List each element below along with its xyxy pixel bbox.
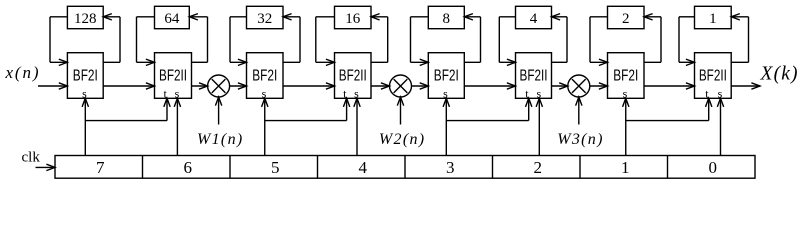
wire feedback up from U8 to M8 <box>731 14 748 63</box>
delay memory box M1 value 128 <box>67 6 103 28</box>
delay memory box M5 value 8 <box>428 6 464 28</box>
delay memory box M8 value 1 <box>695 6 732 28</box>
svg-text:6: 6 <box>184 158 193 177</box>
wire data U1 to U2 <box>103 83 154 89</box>
svg-text:BF2II: BF2II <box>339 68 367 85</box>
wire feedback down from M2 to U2 <box>137 17 155 66</box>
svg-text:BF2II: BF2II <box>699 68 727 85</box>
svg-text:2: 2 <box>622 11 630 27</box>
wire twiddle input to X3 <box>576 97 582 125</box>
multiplier X1 <box>208 75 230 97</box>
multiplier X2 <box>390 75 412 97</box>
wire feedback down from M4 to U4 <box>316 17 335 66</box>
svg-text:4: 4 <box>359 158 368 177</box>
wire data U4 to multiplier X2 <box>371 83 390 89</box>
wire control connector U3 s to U4 t <box>265 98 350 120</box>
svg-text:BF2I: BF2I <box>434 68 459 85</box>
wire feedback up from U7 to M7 <box>644 14 661 63</box>
svg-text:W2(n): W2(n) <box>379 131 424 148</box>
svg-text:BF2I: BF2I <box>73 68 98 85</box>
svg-text:BF2II: BF2II <box>520 68 548 85</box>
svg-text:1: 1 <box>621 158 630 177</box>
wire x(n) input <box>38 83 67 89</box>
svg-text:1: 1 <box>709 11 717 27</box>
wire twiddle input to X2 <box>397 97 403 125</box>
wire data U5 to U6 <box>464 83 515 89</box>
butterfly unit U8 BF2II <box>695 53 732 99</box>
wire clk input <box>36 164 56 170</box>
wire control s of U1 from counter <box>82 98 88 155</box>
wire control s of U6 from counter <box>536 98 542 155</box>
wire twiddle input to X1 <box>215 97 221 125</box>
svg-text:16: 16 <box>345 11 361 27</box>
wire data U2 to multiplier X1 <box>192 83 208 89</box>
counter register block <box>55 156 755 179</box>
butterfly unit U2 BF2II <box>155 53 192 99</box>
butterfly unit U6 BF2II <box>516 53 552 99</box>
wire feedback down from M8 to U8 <box>679 17 695 66</box>
wire control connector U5 s to U6 t <box>446 98 532 120</box>
wire data multiplier X2 to U5 <box>412 83 429 89</box>
butterfly unit U5 BF2I <box>428 53 464 99</box>
svg-text:5: 5 <box>271 158 280 177</box>
svg-text:BF2I: BF2I <box>613 68 638 85</box>
svg-text:7: 7 <box>96 158 105 177</box>
svg-text:128: 128 <box>74 11 97 27</box>
wire feedback up from U3 to M3 <box>283 14 300 63</box>
wire feedback up from U2 to M2 <box>189 14 207 63</box>
svg-text:4: 4 <box>530 11 538 27</box>
wire feedback down from M7 to U7 <box>590 17 608 66</box>
svg-text:0: 0 <box>709 158 718 177</box>
delay memory box M2 value 64 <box>155 6 190 28</box>
svg-text:64: 64 <box>164 11 180 27</box>
delay memory box M7 value 2 <box>608 6 645 28</box>
wire feedback down from M5 to U5 <box>411 17 429 66</box>
svg-text:BF2II: BF2II <box>159 68 187 85</box>
wire feedback down from M3 to U3 <box>230 17 247 66</box>
wire output X(k) <box>731 83 760 89</box>
wire data multiplier X1 to U3 <box>230 83 247 89</box>
svg-text:clk: clk <box>22 150 41 166</box>
svg-text:X(k): X(k) <box>760 63 798 84</box>
svg-text:W3(n): W3(n) <box>557 131 602 148</box>
butterfly unit U3 BF2I <box>247 53 284 99</box>
butterfly unit U7 BF2I <box>608 53 645 99</box>
wire feedback down from M6 to U6 <box>499 17 515 66</box>
wire control s of U5 from counter <box>443 98 449 155</box>
wire feedback up from U5 to M5 <box>464 14 480 63</box>
butterfly unit U4 BF2II <box>335 53 372 99</box>
delay memory box M6 value 4 <box>516 6 552 28</box>
wire control s of U3 from counter <box>262 98 268 155</box>
wire feedback up from U1 to M1 <box>103 14 120 63</box>
wire feedback up from U4 to M4 <box>371 14 388 63</box>
wire control connector U1 s to U2 t <box>85 98 170 120</box>
delay memory box M4 value 16 <box>335 6 372 28</box>
butterfly unit U1 BF2I <box>67 53 103 99</box>
wire feedback down from M1 to U1 <box>50 17 67 66</box>
wire control s of U7 from counter <box>623 98 629 155</box>
wire data U7 to U8 <box>644 83 695 89</box>
wire control s of U8 from counter <box>717 98 723 155</box>
svg-text:2: 2 <box>534 158 543 177</box>
wire control s of U4 from counter <box>354 98 360 155</box>
svg-text:BF2I: BF2I <box>252 68 277 85</box>
svg-text:3: 3 <box>446 158 455 177</box>
svg-text:W1(n): W1(n) <box>197 131 242 148</box>
multiplier X3 <box>568 75 590 97</box>
svg-text:32: 32 <box>257 11 272 27</box>
svg-text:8: 8 <box>443 11 451 27</box>
wire data U6 to multiplier X3 <box>552 83 568 89</box>
wire control connector U7 s to U8 t <box>626 98 712 120</box>
wire data U3 to U4 <box>283 83 335 89</box>
wire control s of U2 from counter <box>174 98 180 155</box>
svg-text:x(n): x(n) <box>5 63 39 82</box>
delay memory box M3 value 32 <box>247 6 284 28</box>
wire feedback up from U6 to M6 <box>552 14 568 63</box>
wire data multiplier X3 to U7 <box>590 83 608 89</box>
